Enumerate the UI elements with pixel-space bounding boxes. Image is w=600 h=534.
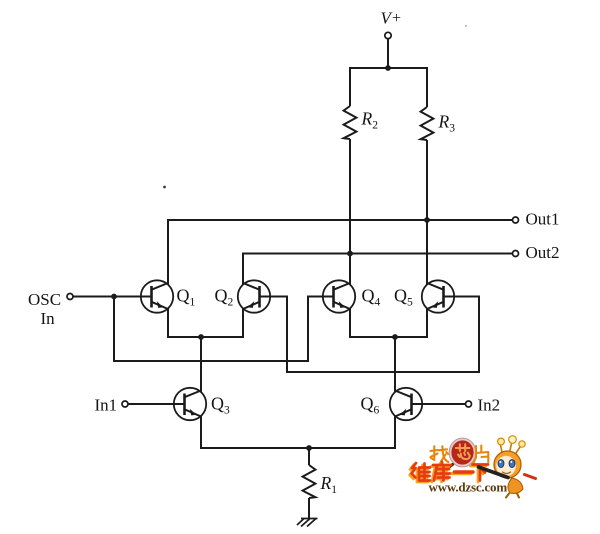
transistor Q2 [238, 280, 270, 312]
wire Q6 emitter lead [394, 417, 396, 449]
watermark char zhao (find) [431, 446, 449, 462]
transistor Q6 [390, 388, 422, 420]
resistor R2 [344, 106, 357, 139]
node Out2 terminal [513, 251, 519, 257]
wire R1 top lead [308, 448, 310, 465]
junction R2 Out2 [347, 251, 353, 257]
transistor Q1 [141, 280, 173, 312]
node In2 terminal [466, 401, 472, 407]
label V+ [381, 9, 402, 28]
wire In1 to Q3 base [128, 403, 184, 405]
speck artifact left [163, 186, 166, 189]
wire R2 bottom lead to Q4 collector [349, 139, 351, 285]
junction emitters to Q6 [392, 334, 398, 340]
junction R3 Out1 [424, 217, 430, 223]
svg-text:In: In [41, 309, 56, 328]
watermark text weiku shadow [410, 464, 486, 483]
wire V+ stem [387, 39, 389, 68]
wire Q6 collector lead [394, 337, 396, 392]
wire Q2 emitter lead [242, 309, 244, 338]
node OSC In terminal [67, 294, 73, 300]
node V+ terminal [385, 32, 391, 38]
junction bottom bus to R1 [306, 445, 312, 451]
wire Q4-Q5 emitter bus [349, 336, 428, 338]
wire Q3 collector lead [200, 337, 202, 392]
wire In2 to Q6 base [412, 403, 466, 405]
svg-text:In1: In1 [95, 396, 118, 415]
watermark text weiku yixia (red) [412, 462, 488, 481]
node In1 terminal [122, 401, 128, 407]
junction emitters to Q3 [198, 334, 204, 340]
svg-text:In2: In2 [478, 396, 501, 415]
node Out1 terminal [513, 217, 519, 223]
wire Out1 line from Q1 collector [168, 220, 513, 285]
junction OSC branch [111, 294, 117, 300]
ground [297, 519, 318, 527]
watermark char pian (piece) [474, 446, 489, 464]
watermark magnifier ring with char xin (chip) [443, 438, 476, 471]
resistor R3 [421, 107, 434, 140]
speck artifact top right [465, 25, 467, 27]
wire R1 bottom lead [308, 498, 310, 518]
transistor Q4 [323, 280, 355, 312]
wire R2 top lead [349, 67, 351, 106]
wire Q2 base down-across-up to Q5 base [261, 297, 480, 373]
wire top rail [349, 67, 428, 69]
wire Q5 emitter lead [426, 309, 428, 338]
transistor Q5 [422, 280, 454, 312]
wire R3 bottom lead to Q5 collector [426, 140, 428, 285]
label OSC In [28, 290, 61, 328]
wire OSC In to Q1 base [73, 296, 151, 298]
wire Q1-Q2 emitter bus [167, 336, 244, 338]
svg-text:www.dzsc.com: www.dzsc.com [429, 480, 508, 495]
wire Q1 emitter lead [167, 309, 169, 338]
watermark logo dzsc [410, 436, 536, 498]
wire OSC branch down-across-up to Q4 base [114, 297, 334, 362]
resistor R1 [303, 465, 316, 498]
watermark mascot [479, 436, 536, 498]
wire bottom emitter bus [200, 447, 396, 449]
wire R3 top lead [426, 67, 428, 107]
wire Out2 line from Q2 collector [243, 254, 513, 285]
svg-text:+: + [392, 10, 401, 27]
svg-text:Out2: Out2 [526, 243, 560, 262]
svg-text:OSC: OSC [28, 290, 61, 309]
wire Q4 emitter lead [349, 309, 351, 338]
wire Q3 emitter lead [200, 417, 202, 449]
junction V+ rail [385, 65, 391, 71]
transistor Q3 [174, 388, 206, 420]
svg-text:Out1: Out1 [526, 210, 560, 229]
